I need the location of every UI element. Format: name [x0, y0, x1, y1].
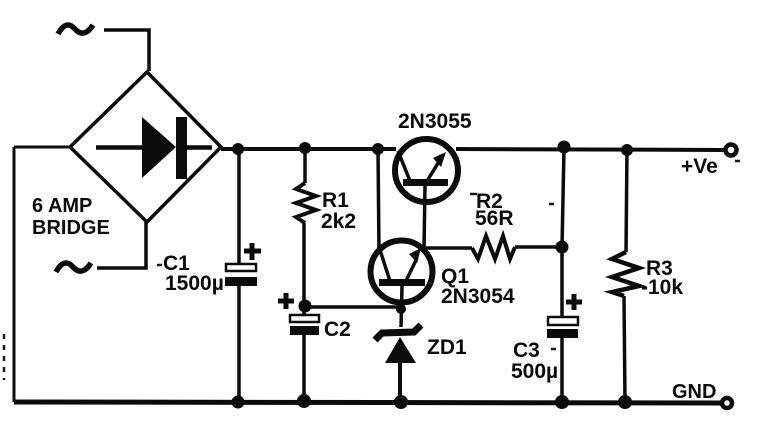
node base drive (R1/C2/wire): [299, 300, 312, 313]
label C1 1500u: [163, 252, 224, 295]
wire left edge vertical: [13, 147, 16, 402]
plus sign C1: [244, 243, 261, 260]
wire collector feed down to Q1: [378, 149, 379, 252]
svg-text:2N3055: 2N3055: [398, 110, 472, 133]
label C2: [324, 318, 351, 341]
node R1 top: [299, 142, 311, 154]
AC input symbol top: [58, 25, 93, 34]
node ZD1 bottom: [394, 395, 408, 409]
label GND: [672, 381, 716, 403]
node C1 top: [232, 143, 244, 155]
label +Ve: [681, 155, 718, 178]
wire output column down: [562, 149, 564, 247]
diode inside bridge: [96, 117, 212, 179]
wire bridge left vertex to left edge: [14, 146, 70, 149]
wire GND rail: [14, 402, 722, 403]
resistor R3: [612, 150, 639, 402]
label 2N3055: [398, 110, 472, 133]
svg-text:2N3054: 2N3054: [441, 285, 515, 308]
terminal +Ve: [726, 145, 737, 156]
zener diode ZD1: [375, 325, 421, 402]
node C3 bottom: [555, 395, 569, 409]
wire top rail regulated +Ve: [456, 149, 726, 150]
svg-text:500µ: 500µ: [511, 360, 558, 383]
label ZD1: [427, 336, 467, 359]
node R3 bottom: [618, 395, 632, 409]
plus sign C3: [566, 294, 582, 310]
wire Q1 emitter to R2: [424, 246, 472, 250]
node C2 bottom: [297, 394, 311, 408]
svg-text:R1: R1: [322, 189, 349, 212]
transistor 2N3055: [395, 139, 458, 250]
capacitor C3: [547, 317, 578, 402]
node ZD1 top junction: [396, 304, 406, 314]
node Q1 collector feed: [372, 143, 384, 155]
capacitor C1: [225, 149, 257, 402]
label Q1 2N3054: [441, 265, 515, 308]
label 6 AMP BRIDGE: [32, 195, 110, 239]
node R2 output column top: [558, 141, 571, 154]
svg-text:1500µ: 1500µ: [165, 272, 224, 295]
svg-text:6 AMP: 6 AMP: [32, 195, 92, 217]
wire top rail unregulated: [221, 147, 396, 151]
wire bridge bottom vertex to AC2: [97, 222, 146, 268]
resistor R2: [472, 236, 562, 259]
transistor Q1 2N3054: [371, 241, 433, 328]
svg-text:C2: C2: [324, 318, 351, 341]
svg-text:C3: C3: [513, 339, 540, 362]
label R2 56R: [475, 190, 514, 230]
label R3 10k: [641, 257, 683, 299]
svg-text:+Ve: +Ve: [681, 155, 718, 178]
bridge rectifier diamond: [70, 72, 221, 222]
svg-text:2k2: 2k2: [321, 210, 356, 233]
label C3 500u: [511, 339, 558, 383]
wire R2 node to C3: [560, 247, 564, 317]
AC input symbol bottom: [56, 263, 91, 272]
svg-text:BRIDGE: BRIDGE: [32, 217, 110, 239]
node R3 top: [621, 144, 633, 156]
svg-text:ZD1: ZD1: [427, 336, 467, 359]
terminal GND: [722, 398, 732, 408]
node C1 bottom: [232, 396, 245, 409]
capacitor C2: [290, 307, 319, 402]
plus sign C2: [278, 293, 294, 309]
node R2 right: [556, 241, 569, 254]
wire base node to ZD1: [305, 305, 401, 309]
label R1 2k2: [321, 189, 356, 233]
svg-text:GND: GND: [672, 381, 716, 403]
svg-text:-10k: -10k: [641, 276, 683, 299]
resistor R1: [296, 149, 316, 301]
scan noise dashes: [4, 161, 740, 380]
wire AC top to bridge top vertex: [104, 30, 149, 71]
svg-text:56R: 56R: [475, 207, 514, 230]
